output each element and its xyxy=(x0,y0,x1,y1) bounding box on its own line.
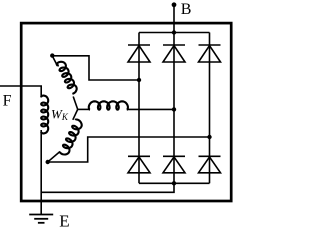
diode VD5 cathode bar xyxy=(163,155,185,157)
node bottom bus junction xyxy=(172,181,176,185)
node phase W terminal dot xyxy=(46,160,50,164)
node phase V rectifier junction xyxy=(172,107,176,111)
wire B lead xyxy=(173,5,175,33)
diode VD5 triangle xyxy=(163,157,185,173)
svg-text:E: E xyxy=(59,211,69,230)
node star neutral point xyxy=(73,97,78,110)
wire bridge middle column xyxy=(173,33,175,184)
ground E bar 1 xyxy=(29,214,53,216)
ground E bar 2 xyxy=(34,218,48,220)
wire phase W lead to terminal xyxy=(48,152,60,162)
inductor stator phase W coil xyxy=(60,120,82,155)
wire field winding to ground xyxy=(40,130,42,215)
diode VD4 cathode bar xyxy=(128,155,150,157)
diode VD3 cathode bar xyxy=(199,44,221,46)
wire phase W to rectifier xyxy=(48,137,210,162)
svg-text:F: F xyxy=(3,92,12,109)
wire phase V to rectifier xyxy=(127,108,174,110)
wire bridge return to ground xyxy=(41,183,174,192)
diode VD4 triangle xyxy=(128,157,150,173)
wire bridge left column xyxy=(138,33,140,184)
diode VD6 triangle xyxy=(199,157,221,173)
wire phase U to rectifier xyxy=(52,56,139,80)
inductor stator phase V coil xyxy=(89,101,128,109)
wire bottom bus (-) xyxy=(139,182,210,184)
wire phase W lead from neutral xyxy=(73,109,78,119)
diode VD3 triangle xyxy=(199,46,221,62)
diode VD1 triangle xyxy=(128,46,150,62)
wire phase U lead to terminal xyxy=(53,56,58,66)
terminal B dot xyxy=(172,2,177,7)
diode VD2 cathode bar xyxy=(163,44,185,46)
wire terminal F lead xyxy=(0,86,41,98)
node top bus junction xyxy=(172,30,176,34)
wire bridge right column xyxy=(209,33,211,184)
node phase U rectifier junction xyxy=(137,78,141,82)
diode VD1 cathode bar xyxy=(128,44,150,46)
diode VD6 cathode bar xyxy=(199,155,221,157)
diode VD2 triangle xyxy=(163,46,185,62)
alternator housing box xyxy=(21,23,231,201)
ground E bar 3 xyxy=(38,222,45,224)
node phase U terminal dot xyxy=(50,53,54,57)
wire top bus (+) xyxy=(139,32,210,34)
svg-text:B: B xyxy=(181,1,192,18)
inductor stator phase U coil xyxy=(57,62,77,94)
node phase W rectifier junction xyxy=(207,135,211,139)
inductor field winding WK xyxy=(41,96,48,134)
wire phase V lead from neutral xyxy=(78,108,90,110)
